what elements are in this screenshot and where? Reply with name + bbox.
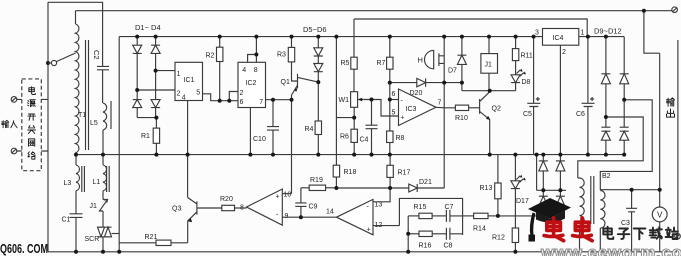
wire y=188 line	[336, 187, 408, 189]
IC4	[543, 29, 579, 46]
junction (533.6,36.6)	[532, 35, 536, 39]
resistor R21	[119, 242, 156, 244]
diode D3	[133, 99, 142, 101]
wire IC3 out to R10	[436, 106, 455, 109]
diode D21	[409, 184, 417, 192]
junction (489.7,90.7)	[488, 89, 492, 93]
svg-text:7: 7	[438, 100, 442, 107]
svg-text:D9~D12: D9~D12	[594, 27, 622, 36]
L5 core bar	[110, 101, 112, 129]
resistor R7	[389, 37, 391, 58]
svg-text:C7: C7	[445, 204, 454, 211]
diode D20	[417, 78, 426, 86]
junction (155.6,70.6)	[154, 69, 158, 73]
junction (291.5,36.6)	[290, 35, 294, 39]
svg-text:R12: R12	[492, 235, 505, 242]
wire RC branch node column	[407, 216, 409, 252]
resistor R16	[408, 233, 419, 235]
junction (137.2,90)	[135, 88, 139, 92]
junction (219.7,100.7)	[218, 99, 222, 103]
wire secondary top y=189.7	[600, 189, 659, 191]
diode D2	[151, 37, 160, 46]
L1 core	[107, 166, 110, 192]
junction (444.2,82.6)	[442, 81, 446, 85]
wire IC2 pin8/pin4	[248, 37, 257, 63]
svg-text:L5: L5	[90, 120, 98, 127]
speaker H	[425, 50, 434, 68]
svg-text:5: 5	[392, 110, 396, 117]
wire op-B pin13	[373, 188, 390, 202]
J1 breakdown symbol	[100, 200, 108, 212]
wire to IC1 pin2	[137, 89, 175, 91]
transformer B2 left winding	[580, 178, 585, 225]
diode D4	[151, 100, 160, 108]
junction (291.5,99.7)	[290, 98, 294, 102]
output terminal 1	[672, 7, 678, 13]
svg-text:7: 7	[259, 99, 263, 106]
resistor R4	[315, 121, 321, 135]
svg-text:1: 1	[581, 30, 585, 37]
wire IC1 pin5 to IC2	[203, 94, 239, 101]
junction (515.4,154.6)	[513, 153, 517, 157]
junction (631.6,189.7)	[630, 188, 634, 192]
svg-text:IC3: IC3	[406, 106, 417, 113]
svg-text:R10: R10	[455, 115, 468, 122]
svg-text:R15: R15	[414, 204, 427, 211]
LED D17	[514, 155, 516, 181]
junction (543.3,190.3)	[541, 188, 545, 192]
diode D12	[620, 126, 629, 128]
wire IC3 pin6	[390, 99, 399, 101]
svg-text:L1: L1	[93, 179, 101, 186]
svg-text:R1: R1	[141, 133, 150, 140]
diode D7	[457, 37, 466, 56]
junction (76,251.8)	[74, 250, 78, 254]
junction (318.3,154.6)	[316, 153, 320, 157]
svg-text:R17: R17	[398, 170, 411, 177]
svg-text:C5: C5	[523, 111, 532, 118]
svg-text:SCR: SCR	[85, 236, 100, 243]
capacitor C9	[295, 188, 306, 217]
svg-text:Q1: Q1	[281, 79, 290, 86]
svg-text:2: 2	[562, 49, 566, 56]
svg-text:R20: R20	[220, 196, 233, 203]
diode D6	[314, 64, 323, 72]
junction (605.9,117)	[604, 115, 608, 119]
junction (408.2,233.8)	[406, 232, 410, 236]
label 输入	[2, 120, 17, 127]
svg-text:R2: R2	[206, 53, 215, 60]
wire D7 bottom link y=90.7	[462, 90, 516, 92]
junction (389.8,99.5)	[388, 98, 392, 102]
input terminal 2	[11, 148, 17, 154]
resistor R20	[197, 207, 222, 209]
resistor R12	[514, 216, 516, 228]
svg-text:J1: J1	[90, 203, 98, 210]
svg-text:+: +	[276, 194, 280, 201]
resistor R8	[387, 131, 393, 143]
wire D13-16 mid line	[537, 189, 566, 191]
junction (489.7,154.6)	[488, 153, 492, 157]
wire to IC1 pin1	[156, 70, 175, 72]
junction (605.9,36.6)	[604, 35, 608, 39]
op-amp B (13/12/14)	[337, 199, 374, 234]
wire op-A +input to pin7 column	[282, 193, 291, 195]
junction (354.2,117.6)	[352, 116, 356, 120]
svg-text:+: +	[401, 115, 405, 122]
svg-text:2: 2	[240, 90, 244, 97]
wire H column x=444 down to D21 line	[443, 37, 445, 189]
junction (273,154.6)	[271, 153, 275, 157]
junction (318.3,36.6)	[316, 35, 320, 39]
svg-text:D17: D17	[516, 198, 529, 205]
svg-text:R16: R16	[419, 243, 432, 250]
L3 core	[82, 166, 85, 192]
junction (156.4,117.6)	[154, 116, 158, 120]
diode D15	[539, 195, 548, 197]
svg-text:B2: B2	[602, 173, 611, 180]
capacitor C8	[446, 228, 462, 240]
wire lead A D9 mid to B2	[578, 117, 643, 178]
svg-text:R7: R7	[377, 60, 386, 67]
svg-text:Q3: Q3	[172, 206, 181, 213]
svg-text:D1~ D4: D1~ D4	[135, 23, 161, 32]
junction (515.4,251.8)	[513, 250, 517, 254]
resistor R5	[353, 19, 355, 57]
junction (103,154.6)	[101, 153, 105, 157]
junction (256.4,36.6)	[254, 35, 258, 39]
svg-text:R19: R19	[310, 177, 323, 184]
svg-text:R21: R21	[145, 234, 158, 241]
svg-text:8: 8	[254, 67, 258, 74]
diode D10	[620, 37, 629, 74]
junction (389.8,154.6)	[388, 153, 392, 157]
svg-text:C8: C8	[444, 243, 453, 250]
svg-text:C6: C6	[576, 111, 585, 118]
junction (119.2,251.8)	[117, 250, 121, 254]
junction (336.4,188)	[334, 186, 338, 190]
wire IC4 pin2 column down through D13/D15	[559, 45, 561, 216]
diode D11	[601, 126, 610, 128]
svg-text:D5~D6: D5~D6	[303, 25, 327, 34]
resistor R13	[497, 155, 499, 183]
wire left vertical x=48	[47, 2, 49, 252]
SCR triac	[102, 211, 104, 227]
wire Q1 emitter / pin7 column down to op-amp	[291, 95, 293, 194]
svg-text:C9: C9	[309, 204, 318, 211]
wire IC2 pin7	[266, 99, 292, 101]
svg-text:D21: D21	[419, 179, 432, 186]
junction (489,36.6)	[487, 35, 491, 39]
diode D9	[601, 37, 610, 74]
diode D14	[556, 160, 565, 162]
wire x=536 from rail	[536, 155, 538, 191]
junction (187.6,154.6)	[186, 153, 190, 157]
junction (389.8,36.6)	[388, 35, 392, 39]
wire second rail y=19	[354, 19, 587, 37]
junction (371.5,154.6)	[370, 153, 374, 157]
power switch dashed box	[22, 79, 42, 171]
diode D1	[136, 37, 138, 46]
resistor R18	[333, 165, 339, 177]
capacitor C10	[267, 100, 279, 155]
svg-text:D8: D8	[522, 79, 531, 86]
wire op-A -input / pin9 line	[282, 216, 336, 218]
wire W1 bottom link y=117.6	[336, 117, 354, 119]
wire mid rail y=154.6	[76, 154, 624, 156]
svg-text:R8: R8	[396, 135, 405, 142]
junction (256.4,54.5)	[254, 53, 258, 57]
wire lead B D10 mid to B2	[600, 100, 652, 190]
diode D5	[317, 37, 319, 48]
svg-text:R18: R18	[344, 169, 357, 176]
label 输出	[667, 98, 675, 117]
junction (318.3,82.1)	[316, 80, 320, 84]
svg-text:Q2: Q2	[492, 106, 501, 113]
svg-text:R6: R6	[340, 134, 349, 141]
inductor L1	[102, 155, 104, 165]
resistor R3	[291, 37, 293, 48]
junction (461.9,36.6)	[460, 35, 464, 39]
resistor R15	[408, 215, 419, 217]
junction (76,154.6)	[74, 153, 78, 157]
resistor R11	[515, 37, 517, 49]
voltmeter V	[659, 53, 661, 207]
transformer T1 primary	[75, 11, 77, 24]
inductor L5	[102, 70, 104, 103]
svg-text:IC1: IC1	[184, 77, 195, 84]
svg-text:R4: R4	[305, 126, 314, 133]
capacitor C7	[446, 210, 462, 222]
relay J1	[488, 37, 490, 54]
transistor Q2	[479, 99, 481, 114]
svg-text:www.eeworm.com: www.eeworm.com	[540, 243, 681, 256]
svg-text:C2: C2	[92, 50, 101, 60]
svg-text:5: 5	[196, 90, 200, 97]
svg-text:W1: W1	[339, 97, 350, 104]
svg-text:R13: R13	[480, 185, 493, 192]
wire IC2 bottom to rail	[249, 108, 251, 155]
wire IC1 pin4 / Q3 collector column	[187, 101, 189, 198]
svg-text:+: +	[367, 227, 371, 234]
watermark eeworm logo cap	[528, 198, 571, 219]
diode D16	[556, 195, 565, 197]
svg-text:R14: R14	[473, 226, 486, 233]
svg-text:C3: C3	[621, 220, 630, 227]
svg-text:V: V	[657, 211, 663, 220]
svg-text:C1: C1	[62, 217, 71, 224]
IC1	[175, 62, 203, 100]
junction (300.9,217.2)	[299, 215, 303, 219]
svg-text:4: 4	[242, 67, 246, 74]
junction (273,99.7)	[271, 98, 275, 102]
transistor Q1	[297, 74, 299, 88]
junction (543.3,154.6)	[541, 153, 545, 157]
T1 core	[86, 40, 89, 150]
junction (605.9,154.6)	[604, 153, 608, 157]
svg-text:H: H	[418, 56, 423, 65]
junction (229.3,100.7)	[227, 99, 231, 103]
junction (336.4,36.6)	[334, 35, 338, 39]
svg-text:C4: C4	[360, 137, 369, 144]
output terminal 2	[675, 233, 681, 239]
wire node y=215.9 to D13 bridge	[498, 215, 543, 217]
junction (587.9,36.6)	[586, 35, 590, 39]
svg-text:1: 1	[177, 71, 181, 78]
junction (155.6,36.6)	[154, 35, 158, 39]
junction (497.9,215.9)	[496, 214, 500, 218]
svg-text:4: 4	[182, 95, 186, 102]
junction (137.2,36.6)	[135, 35, 139, 39]
junction (624.2,99.8)	[622, 98, 626, 102]
wire H/D20/D7 line y=82.6	[390, 82, 417, 84]
wire op-B pin12	[373, 225, 399, 227]
IC3 op-amp	[399, 89, 437, 126]
junction (560.4,154.6)	[558, 153, 562, 157]
resistor R2	[219, 37, 221, 48]
wire IC2 pin2 jog	[229, 92, 238, 101]
svg-text:IC4: IC4	[553, 35, 564, 42]
junction (587.9,154.6)	[586, 153, 590, 157]
junction (560.4,190.3)	[558, 188, 562, 192]
resistor R10	[455, 105, 468, 110]
wire output jog from top rail	[644, 11, 660, 54]
IC2	[238, 62, 266, 107]
resistor R1	[155, 118, 157, 129]
junction (48,63)	[46, 61, 50, 65]
wire bottom rail y=251.8	[48, 251, 677, 253]
svg-text:6: 6	[392, 91, 396, 98]
B2 right winding	[600, 191, 605, 229]
junction (389.8,82.6)	[388, 81, 392, 85]
junction (408.2,251.8)	[406, 250, 410, 254]
wire R18/W1 column x=336	[335, 37, 337, 166]
watermark 电子下载站	[603, 227, 678, 239]
svg-text:9: 9	[285, 213, 289, 220]
svg-text:14: 14	[326, 209, 334, 216]
svg-text:R3: R3	[277, 52, 286, 59]
junction (156.4,154.6)	[154, 153, 158, 157]
svg-text:D7: D7	[448, 68, 457, 75]
svg-text:3: 3	[535, 30, 539, 37]
junction (390.1,188)	[388, 186, 392, 190]
junction (515.6,36.6)	[514, 35, 518, 39]
svg-text:L3: L3	[64, 180, 72, 187]
resistor R19	[301, 187, 309, 189]
junction (371.5,99.5)	[370, 98, 374, 102]
transistor Q3	[196, 201, 198, 214]
B2 core	[591, 176, 594, 224]
svg-text:13: 13	[375, 202, 383, 209]
svg-text:IC2: IC2	[246, 80, 257, 87]
junction (103,251.8)	[101, 250, 105, 254]
svg-text:10: 10	[284, 192, 292, 199]
resistor R6	[351, 129, 357, 142]
junction (536.6,154.6)	[535, 153, 539, 157]
op-amp A (8/10/9)	[247, 189, 283, 225]
feedback box wiring	[399, 198, 462, 235]
watermark 虫虫 red characters	[544, 218, 592, 241]
wire top rail y=10.7	[76, 10, 672, 12]
svg-text:J1: J1	[485, 62, 493, 69]
junction (219.7,36.6)	[218, 35, 222, 39]
resistor R17	[389, 155, 391, 166]
junction (643.9,10.7)	[642, 9, 646, 13]
capacitor C2	[97, 66, 109, 69]
input terminal 1	[11, 97, 17, 103]
junction (659.7,189.7)	[658, 188, 662, 192]
capacitor C6	[582, 37, 595, 155]
wire right edge x=678	[677, 40, 679, 233]
svg-text:Q606. COM: Q606. COM	[0, 241, 48, 256]
junction (461.9,82.6)	[460, 81, 464, 85]
wire dc rail y=36.6	[119, 36, 624, 38]
capacitor C5	[527, 37, 540, 155]
junction (444.2,36.6)	[442, 35, 446, 39]
wire D13 column	[542, 155, 544, 216]
label 电源开关网络 vertical	[28, 87, 36, 159]
wire bridge-left vertical x=119	[118, 37, 120, 252]
junction (250.4,154.6)	[248, 153, 252, 157]
svg-text:C10: C10	[253, 136, 266, 143]
svg-text:2: 2	[177, 91, 181, 98]
diode D13	[539, 160, 548, 162]
capacitor C4	[366, 100, 378, 155]
capacitor C3	[626, 190, 637, 252]
junction (624.2,154.6)	[622, 153, 626, 157]
svg-text:R5: R5	[341, 60, 350, 67]
capacitor C1	[70, 214, 83, 218]
LED D8	[511, 75, 520, 83]
inductor L3	[75, 155, 77, 165]
wire bridge bottom node	[137, 117, 156, 119]
resistor R14	[463, 215, 474, 217]
wire top-left loop to C2	[48, 2, 103, 66]
potentiometer W1	[351, 92, 358, 108]
junction (354.2,154.6)	[352, 153, 356, 157]
svg-text:6: 6	[240, 99, 244, 106]
svg-text:R11: R11	[521, 53, 533, 60]
